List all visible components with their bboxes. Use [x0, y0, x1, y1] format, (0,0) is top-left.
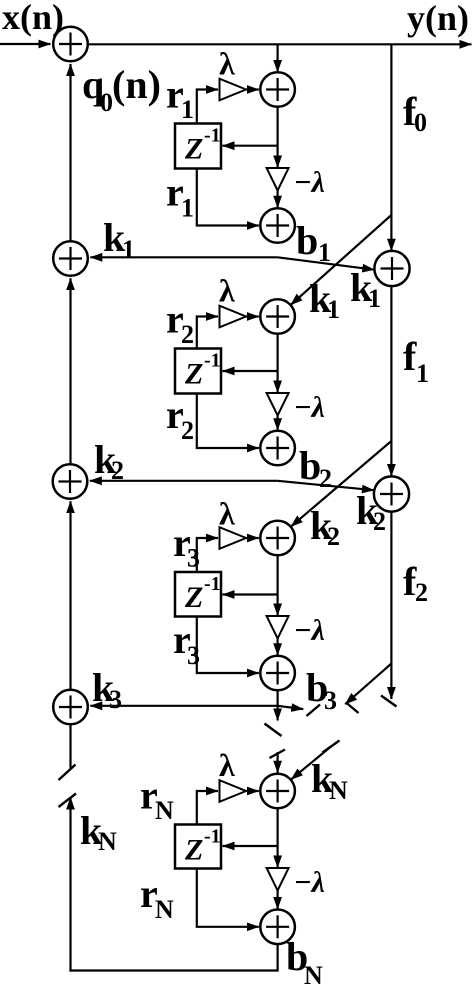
svg-text:N: N — [155, 796, 174, 825]
summer S2 (stage-2 input adder) — [260, 299, 295, 334]
svg-text:f: f — [403, 334, 417, 379]
svg-text:λ: λ — [219, 496, 235, 532]
summer B1 (b1 adder) — [260, 208, 295, 243]
svg-text:3: 3 — [187, 641, 200, 670]
svg-text:2: 2 — [327, 522, 340, 551]
label k2 (left) — [94, 437, 124, 485]
svg-text:1: 1 — [416, 359, 429, 388]
label λ (stage 2) — [219, 273, 235, 309]
label r3 (lower, stage 3) — [173, 617, 200, 670]
break tick at top of lower q path — [59, 794, 77, 808]
svg-text:λ: λ — [219, 747, 235, 783]
svg-text:2: 2 — [181, 416, 194, 445]
wire: λ output into stage-1 summer — [246, 88, 259, 90]
label λ (stage N) — [219, 747, 235, 783]
summer L1 (k1 left adder) — [53, 241, 88, 276]
svg-text:N: N — [329, 776, 348, 805]
svg-text:−λ: −λ — [294, 866, 326, 899]
label r2 (lower, stage 2) — [166, 392, 194, 445]
label y(n) — [407, 0, 469, 38]
label f2 — [403, 559, 428, 607]
wire: center tap from top line into stage-1 summer — [277, 44, 279, 72]
label -λ (stage N) — [294, 866, 326, 899]
wire: q path up from bottom to break — [69, 798, 71, 972]
wire: -λ output into summer B3 — [277, 639, 279, 656]
delay Z^-1 box (stage N) — [175, 825, 221, 869]
wire: stage-1 summer down to -λ triangle — [277, 107, 279, 168]
wire: f0 branch from top line down to right summer R1 — [390, 44, 392, 251]
svg-text:1: 1 — [181, 194, 194, 223]
svg-text:2: 2 — [373, 507, 386, 536]
wire: f0 diagonal down into stage-2 summer (k1) — [291, 215, 392, 305]
wire: b1 right into summer R1 (k1 tap) — [278, 257, 375, 269]
svg-text:2: 2 — [181, 320, 194, 349]
label λ (stage 3) — [219, 496, 235, 532]
wire: r2 feedback up into λ (stage 2) — [197, 317, 218, 349]
wire: stage-3 summer down to -λ triangle — [277, 555, 279, 615]
svg-text:−λ: −λ — [294, 166, 326, 199]
wire: into delay box (stage 2) — [223, 370, 278, 372]
wire: r3 delayed output into summer B3 — [197, 617, 259, 674]
svg-text:N: N — [98, 827, 117, 856]
wire: λ output into stage-N summer — [246, 790, 259, 792]
break tick on f2 diagonal — [346, 703, 359, 714]
wire: input x(n) into summer A0 — [0, 43, 51, 45]
svg-text:b: b — [299, 443, 321, 488]
label k1 (at diagonal) — [309, 276, 340, 324]
wire: r2 delayed output into summer B2 — [197, 394, 259, 449]
svg-text:−λ: −λ — [294, 614, 326, 647]
svg-text:3: 3 — [324, 686, 337, 715]
wire: q path up into summer A0 — [69, 64, 71, 241]
summer A0 (x(n)+q0 adder) — [53, 27, 88, 62]
svg-text:b: b — [296, 218, 318, 263]
gain λ triangle (stage 3) — [220, 527, 247, 549]
delay Z^-1 box (stage 2) — [175, 349, 221, 394]
svg-text:-1: -1 — [204, 125, 221, 147]
svg-text:-1: -1 — [204, 350, 221, 372]
label rN (lower, stage N) — [140, 871, 174, 924]
wire: stage-2 summer down to -λ triangle — [277, 334, 279, 393]
label Z^-1 (stage 3) — [184, 573, 221, 614]
wire: -λ output into summer BN — [277, 891, 279, 910]
summer B2 (b2 adder) — [260, 431, 295, 466]
svg-text:3: 3 — [187, 544, 200, 573]
label k1 (left) — [103, 215, 135, 264]
summer B3 (b3 adder) — [260, 656, 295, 691]
label r3 (upper, stage 3) — [173, 520, 200, 573]
svg-text:3: 3 — [109, 685, 122, 714]
break tick on b3 right stub — [307, 705, 321, 717]
break tick above stage-N summer — [270, 750, 286, 759]
wire: bN output down and left along bottom — [69, 944, 277, 970]
label k1 (at right summer) — [350, 265, 381, 313]
wire: b3 right stub toward k3 right (elided) — [278, 706, 304, 709]
wire: f2 segment from R2 down to break — [390, 512, 392, 699]
label kN (at diagonal) — [311, 756, 348, 805]
label r1 (upper, stage 1) — [166, 72, 194, 125]
wire: q path up into summer L2 — [69, 501, 71, 689]
svg-text:−λ: −λ — [294, 391, 326, 424]
wire: -λ output into summer B2 — [277, 416, 279, 431]
break tick on b3 down stub — [265, 724, 282, 737]
wire: r3 feedback up into λ (stage 3) — [197, 538, 218, 572]
label b2 — [299, 443, 332, 493]
label rN (upper, stage N) — [140, 773, 174, 826]
wire: r1 delayed output into summer B1 — [197, 169, 259, 226]
summer BN (bN adder) — [260, 910, 295, 945]
delay Z^-1 box (stage 1) — [175, 124, 221, 169]
svg-text:1: 1 — [122, 235, 135, 264]
label -λ (stage 1) — [294, 166, 326, 199]
break tick on kN diagonal — [323, 741, 340, 753]
label b3 — [306, 665, 337, 715]
summer R2 (k2 right adder) — [374, 476, 409, 511]
label Z^-1 (stage N) — [184, 826, 221, 867]
summer R1 (k1 right adder) — [374, 251, 409, 286]
svg-text:λ: λ — [219, 273, 235, 309]
gain λ triangle (stage N) — [220, 780, 247, 802]
gain -λ triangle (stage 2) — [267, 393, 289, 416]
label λ (stage 1) — [219, 46, 235, 82]
gain -λ triangle (stage 1) — [267, 168, 289, 191]
label -λ (stage 3) — [294, 614, 326, 647]
svg-text:Z: Z — [184, 834, 203, 867]
summer S3 (stage-3 input adder) — [260, 521, 295, 556]
label r2 (upper, stage 2) — [166, 297, 194, 350]
gain -λ triangle (stage 3) — [267, 616, 289, 639]
wire: rN delayed output into summer BN — [197, 869, 259, 927]
wire: b2 left to summer L2 (k2 tap) — [90, 480, 278, 482]
delay Z^-1 box (stage 3) — [175, 572, 221, 617]
wire: f1 segment from R1 down to R2 — [390, 286, 392, 476]
svg-text:1: 1 — [181, 95, 194, 124]
wire: b3 left to summer L3 (k3 tap) — [90, 705, 277, 707]
label k2 (at diagonal) — [310, 503, 340, 551]
label b1 — [296, 218, 331, 267]
wire: q path stub below L3 to break — [69, 725, 71, 771]
wire: into delay box (stage 3) — [223, 593, 278, 595]
wire: r1 feedback up into λ (stage 1) — [197, 90, 218, 124]
wire: b3 down stub to break — [277, 691, 279, 721]
summer L3 (k3 left adder) — [53, 690, 88, 725]
wire: -λ output into summer B1 — [277, 191, 279, 208]
svg-text:2: 2 — [415, 578, 428, 607]
wire: stage-N summer down to -λ triangle — [277, 808, 279, 867]
label -λ (stage 2) — [294, 391, 326, 424]
label Z^-1 (stage 1) — [184, 125, 221, 166]
wire: rN feedback up into λ (stage N) — [197, 791, 218, 825]
svg-text:(n): (n) — [112, 62, 161, 107]
label f1 — [403, 334, 429, 388]
wire: kN diagonal into stage-N summer — [291, 747, 331, 780]
svg-text:x(n): x(n) — [2, 0, 64, 37]
label bN — [286, 934, 323, 987]
wire: f2 diagonal down-left to break — [345, 664, 391, 705]
svg-text:y(n): y(n) — [407, 0, 469, 38]
wire: λ output into stage-3 summer — [246, 537, 259, 539]
gain λ triangle (stage 2) — [220, 306, 247, 328]
gain -λ triangle (stage N) — [267, 868, 289, 891]
label k2 (at right summer) — [356, 488, 386, 536]
wire: top output line to y(n) — [88, 43, 472, 45]
label f0 — [403, 89, 427, 137]
svg-text:1: 1 — [327, 295, 340, 324]
svg-text:Z: Z — [184, 133, 203, 166]
svg-text:-1: -1 — [204, 573, 221, 595]
gain λ triangle (stage 1) — [220, 79, 247, 101]
wire: b2 right into summer R2 (k2 tap) — [278, 481, 374, 490]
wire: f1 diagonal down into stage-3 summer (k2) — [291, 441, 392, 527]
svg-text:λ: λ — [219, 46, 235, 82]
label x(n) — [2, 0, 64, 37]
label q0(n) — [82, 62, 161, 117]
label k3 (left) — [92, 665, 122, 714]
summer SN (stage-N input adder) — [260, 774, 295, 809]
svg-text:0: 0 — [414, 108, 427, 137]
label r1 (lower, stage 1) — [166, 170, 194, 223]
wire: into delay box (stage 1) — [223, 145, 278, 147]
wire: λ output into stage-2 summer — [246, 315, 259, 317]
svg-text:Z: Z — [184, 581, 203, 614]
break tick on f2 vertical — [381, 696, 397, 707]
svg-text:2: 2 — [319, 464, 332, 493]
summer L2 (k2 left adder) — [53, 464, 88, 499]
label Z^-1 (stage 2) — [184, 350, 221, 391]
wire: into delay box (stage N) — [223, 845, 278, 847]
summer S1 (stage-1 input adder) — [260, 72, 295, 107]
wire: center vertical stub into stage-N summer — [277, 752, 279, 773]
svg-text:N: N — [155, 895, 174, 924]
wire: q path up into summer L1 — [69, 278, 71, 464]
svg-text:N: N — [304, 961, 323, 987]
break tick on q stub below L3 — [59, 765, 76, 781]
wire: b1 left to summer L1 (k1 tap) — [90, 256, 277, 258]
svg-text:1: 1 — [368, 284, 381, 313]
svg-text:Z: Z — [184, 358, 203, 391]
svg-text:-1: -1 — [204, 826, 221, 848]
label kN (left) — [80, 808, 117, 856]
